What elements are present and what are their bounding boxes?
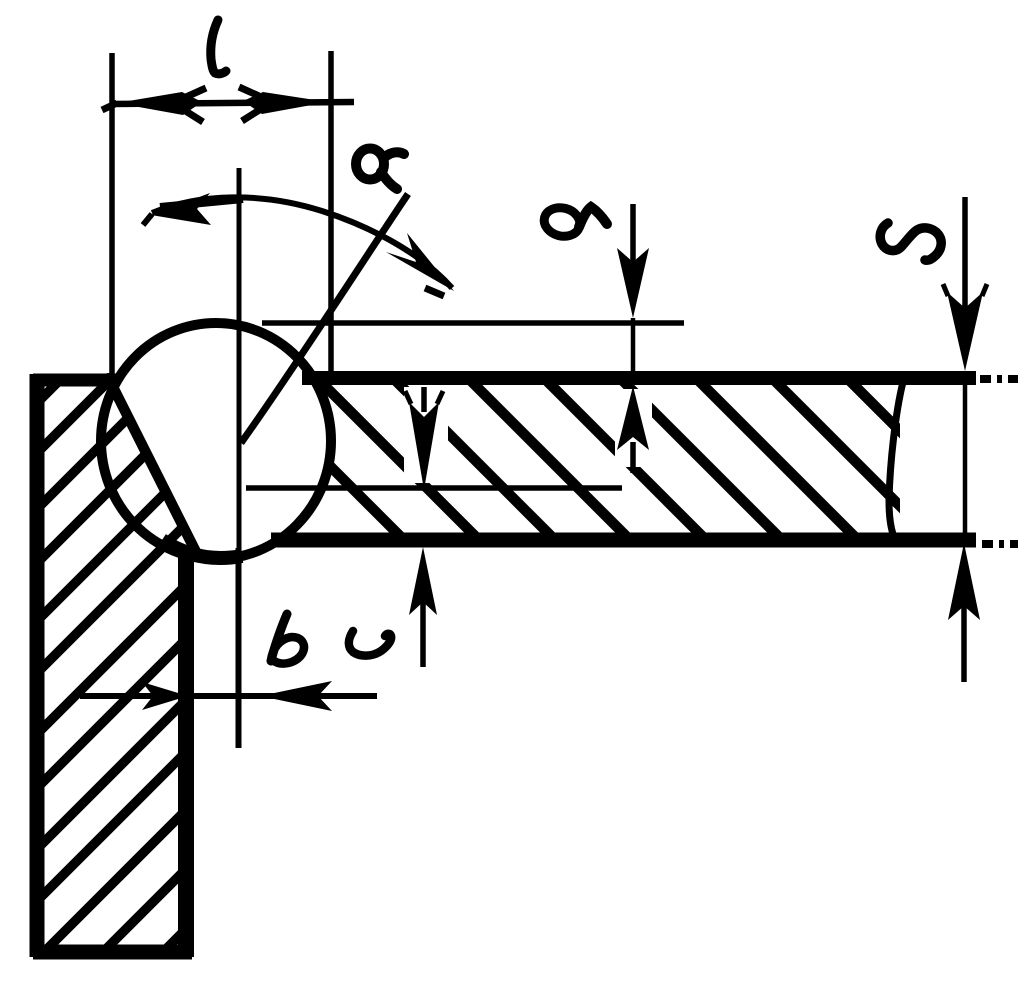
plate top / weld left junction blob xyxy=(100,373,118,389)
dimension l line xyxy=(110,102,354,104)
horizontal plate bottom edge xyxy=(271,533,976,548)
alpha arc left arrowhead xyxy=(151,193,211,225)
dimension l left arrowhead xyxy=(117,92,202,115)
dimension b label xyxy=(271,614,304,664)
dimension q middle segment xyxy=(631,318,636,385)
dimension b extension line xyxy=(236,548,241,748)
weld fusion bevel line xyxy=(111,383,197,554)
alpha arc left arrow thick bar xyxy=(160,199,243,207)
dimension s upper arrowhead xyxy=(947,292,983,371)
dimension l right extension line xyxy=(328,51,334,377)
dimension s lower arrowhead xyxy=(948,543,980,620)
dimension q lower arrowhead xyxy=(617,386,649,450)
vertical plate right edge xyxy=(178,548,194,957)
dimension s upper stem xyxy=(962,197,968,310)
dimension q upper arrowhead xyxy=(617,248,649,318)
dimension c lower stem xyxy=(420,602,426,667)
dimension c upper arrowhead xyxy=(409,402,439,490)
alpha arc right arrow tip flick xyxy=(425,288,444,296)
horizontal plate hatching xyxy=(240,376,1010,541)
vertical plate left edge xyxy=(30,374,45,957)
dimension l left extension line xyxy=(109,53,115,379)
weld axis line xyxy=(237,168,242,748)
weld root junction blob xyxy=(162,540,242,558)
dimension c upper stem xyxy=(421,387,427,412)
dimension b right arrowhead xyxy=(260,681,332,711)
dimension s crossing segment xyxy=(963,380,968,538)
dimension l label xyxy=(211,20,226,74)
weld bead outline xyxy=(101,323,331,559)
hatch gap around c arrow xyxy=(404,387,448,483)
horizontal plate top edge dashes xyxy=(980,375,1018,383)
weld bead interior (erase hatch) xyxy=(101,323,331,559)
dimension c upper arrowhead flicks xyxy=(405,391,443,404)
alpha arc left arrow tail xyxy=(143,214,152,225)
weld root line (c reference) xyxy=(246,485,622,491)
horizontal plate top edge xyxy=(302,371,976,385)
hatch gap around q lower arrow xyxy=(615,389,652,467)
vertical plate top edge xyxy=(33,374,116,387)
dimension s lower stem xyxy=(961,606,967,682)
horizontal plate bottom edge dashes xyxy=(982,540,1018,548)
dimension q lower stem xyxy=(630,442,636,473)
dimension c label xyxy=(349,631,391,656)
vertical plate bottom edge xyxy=(33,945,192,960)
dimension s arrowhead flicks xyxy=(943,284,987,296)
vertical plate hatching xyxy=(38,242,198,980)
horizontal plate break curve xyxy=(889,382,903,534)
dimension l right arrowhead xyxy=(243,92,328,114)
alpha arc right arrowhead xyxy=(386,233,454,291)
alpha slant line xyxy=(241,194,408,443)
dimension q upper stem xyxy=(630,204,636,262)
dimension q label xyxy=(541,204,607,240)
dimension c lower arrowhead xyxy=(409,547,437,615)
weld top tangent line (q reference) xyxy=(262,320,684,326)
dimension b left arrowhead xyxy=(142,682,188,710)
dimension b line xyxy=(80,693,377,699)
dimension alpha arc xyxy=(152,197,452,288)
dimension alpha label xyxy=(356,149,404,190)
dimension s label xyxy=(880,223,941,260)
